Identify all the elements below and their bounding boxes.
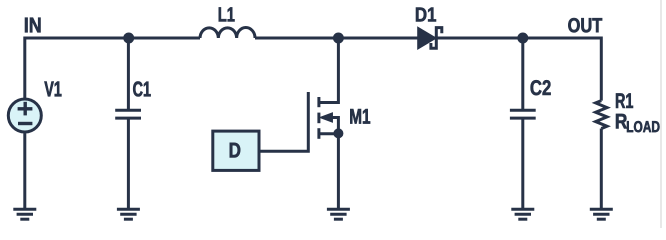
right edge artifact line (660, 0, 662, 228)
wire source to ground (337, 133, 340, 209)
capacitor C2 plates (510, 109, 536, 112)
label C1 (133, 81, 150, 96)
mosfet M1 (259, 38, 343, 209)
node dot at C1 (123, 33, 134, 44)
label L1 (219, 7, 235, 21)
diode D1 (schottky) (418, 28, 441, 49)
ground (M1) (327, 209, 350, 219)
body arrow (321, 113, 333, 122)
label IN (25, 18, 41, 33)
capacitor C1 wires (127, 38, 130, 110)
source lead (319, 132, 339, 135)
wire top rail left segment (25, 38, 200, 100)
resistor R1 zigzag (596, 101, 607, 129)
gate lead and gate plate (259, 92, 308, 151)
capacitor C1 plates (115, 109, 141, 112)
ground (R1) (590, 209, 613, 219)
label D (driver box) (230, 143, 240, 158)
wire resistor to ground (600, 129, 603, 210)
ground (C1) (117, 209, 140, 219)
wire rail inductor to diode (255, 37, 421, 40)
node dot at C2 (517, 33, 528, 44)
label RLOAD subscript (627, 121, 660, 132)
label RLOAD R (616, 114, 627, 129)
wire rail diode to out corner, down to resistor (434, 38, 601, 101)
driver block D (213, 131, 259, 170)
label C2 (531, 80, 551, 95)
voltage source V1 (8, 99, 41, 132)
channel dashes (317, 97, 320, 139)
label D1 (416, 8, 436, 22)
ground (V1) (13, 209, 36, 219)
label R1 (616, 93, 633, 108)
source-body junction dot (333, 128, 343, 138)
inductor L1 (200, 28, 255, 39)
node dot at M1 drain (333, 33, 344, 44)
label OUT (568, 18, 602, 32)
label M1 (350, 109, 370, 124)
source V1 wires (23, 133, 26, 209)
label V1 (44, 82, 61, 97)
drain lead (319, 38, 339, 103)
capacitor C2 wires (521, 38, 524, 110)
ground (C2) (511, 209, 534, 219)
